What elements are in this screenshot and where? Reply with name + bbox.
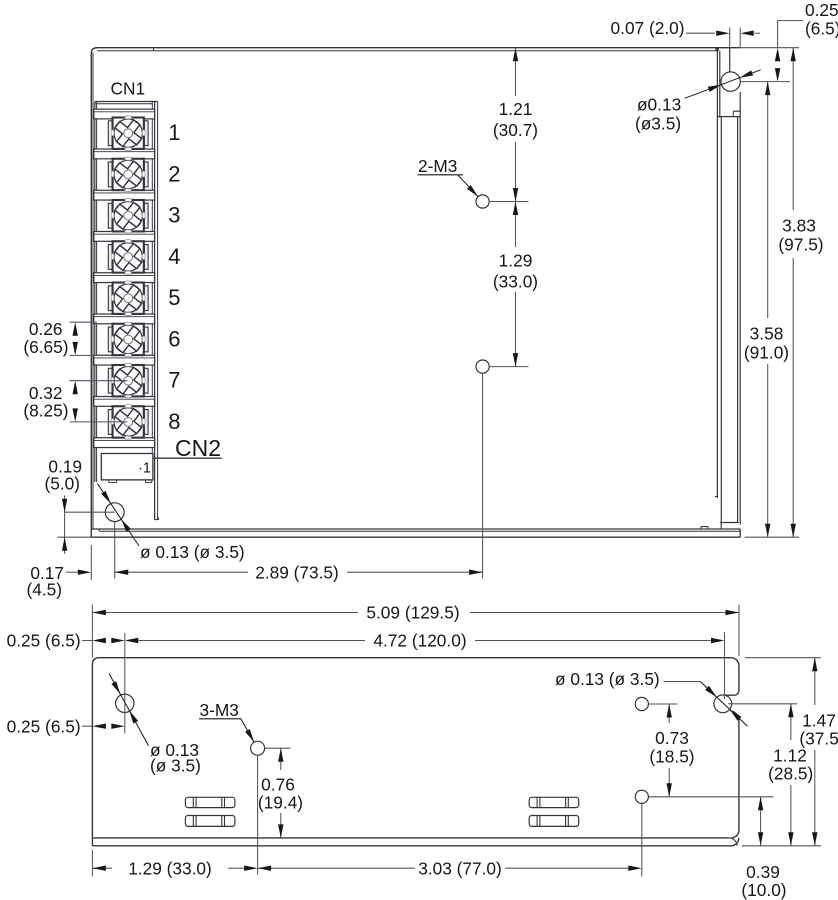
svg-text:0.07 (2.0): 0.07 (2.0) [611, 18, 685, 38]
dim 1.12 (28.5) [728, 704, 813, 846]
svg-text:1.29 (33.0): 1.29 (33.0) [128, 859, 212, 879]
hole top-left bottom view [116, 694, 134, 712]
hole TL center line [124, 633, 126, 734]
svg-text:0.26: 0.26 [29, 319, 63, 339]
terminal screw 8 [108, 403, 148, 442]
dim 1.21 (30.7) [493, 48, 538, 202]
dim 0.19 (5.0) [44, 457, 114, 555]
hole BL leader [97, 483, 139, 546]
dim 1.29 (33.0) bottom [92, 756, 257, 879]
terminal number 8 [168, 409, 180, 434]
svg-text:2.89 (73.5): 2.89 (73.5) [255, 563, 339, 583]
CN2 leader underline [151, 457, 222, 459]
dim 1.47 (37.5) [742, 658, 838, 846]
dim 0.76 (19.4) [258, 748, 303, 838]
hole TL label [150, 740, 201, 776]
svg-text:3.58: 3.58 [750, 324, 784, 344]
vent slots right group [529, 797, 579, 826]
dim 5.09 (129.5) [92, 603, 739, 658]
terminal screw 5 [108, 279, 148, 318]
svg-text:(10.0): (10.0) [741, 880, 786, 900]
dim 0.17 (4.5) [26, 545, 91, 600]
CN2 pin1 mark [138, 460, 151, 476]
CN1 label [111, 79, 146, 99]
svg-text:1.12: 1.12 [773, 746, 807, 766]
vent slots left group [185, 797, 235, 826]
svg-text:2-M3: 2-M3 [418, 156, 457, 176]
svg-text:1.47: 1.47 [802, 711, 836, 731]
hole right A [635, 697, 648, 710]
CN2 connector [101, 454, 153, 483]
dim 1.29 (33.0) top view [493, 202, 538, 367]
svg-text:1.29: 1.29 [499, 251, 533, 271]
svg-text:(8.25): (8.25) [23, 401, 68, 421]
bottom rail tab [701, 527, 708, 529]
svg-text:CN1: CN1 [111, 79, 146, 99]
svg-text:(6.5): (6.5) [805, 19, 838, 39]
svg-text:3.03 (77.0): 3.03 (77.0) [418, 859, 502, 879]
3-M3 label [199, 700, 241, 720]
case corner tab [715, 47, 718, 51]
terminal screw 4 [108, 238, 148, 277]
svg-text:0.76: 0.76 [261, 775, 295, 795]
terminal strip frame [95, 102, 159, 520]
terminal number 3 [168, 203, 180, 228]
terminal number 2 [168, 161, 180, 186]
svg-text:(30.7): (30.7) [493, 120, 538, 140]
hole BL label [140, 542, 245, 562]
svg-text:(5.0): (5.0) [44, 474, 80, 494]
terminal screw 6 [108, 320, 148, 359]
hole 2-M3 #1 [476, 195, 489, 208]
dim 3.58 (91.0) [744, 82, 799, 538]
svg-text:4: 4 [168, 244, 180, 269]
right flange edges [715, 48, 740, 529]
keyhole leader top view [685, 70, 761, 98]
svg-text:1: 1 [168, 120, 180, 145]
svg-text:(19.4): (19.4) [258, 793, 303, 813]
svg-text:0.25 (6.5): 0.25 (6.5) [7, 716, 81, 736]
svg-text:3-M3: 3-M3 [200, 700, 239, 720]
notch label [555, 669, 660, 689]
CN2 label [175, 435, 221, 461]
svg-text:ø 0.13 (ø 3.5): ø 0.13 (ø 3.5) [140, 542, 245, 562]
svg-text:4.72 (120.0): 4.72 (120.0) [373, 631, 466, 651]
hole 3-M3 [251, 741, 265, 755]
hole right B [635, 790, 648, 803]
bottom view outline [92, 658, 739, 846]
svg-text:(6.65): (6.65) [23, 337, 68, 357]
dim 4.72 (120.0) [7, 631, 725, 700]
terminal screw 1 [108, 114, 148, 153]
svg-text:0.25: 0.25 [805, 0, 838, 20]
dim 2.89 (73.5) [115, 522, 483, 583]
case outline top view [91, 48, 740, 538]
svg-text:8: 8 [168, 409, 180, 434]
hole 2-M3 #2 [476, 360, 489, 373]
svg-text:·1: ·1 [138, 460, 151, 476]
svg-text:3.83: 3.83 [782, 216, 816, 236]
svg-text:2: 2 [168, 161, 180, 186]
svg-text:1.21: 1.21 [499, 99, 533, 119]
terminal divider bars [94, 109, 155, 447]
svg-text:(97.5): (97.5) [778, 234, 823, 254]
svg-text:(28.5): (28.5) [768, 764, 813, 784]
2-M3 hole ticks [483, 202, 529, 579]
svg-text:(37.5): (37.5) [799, 729, 838, 749]
dim 0.32 (8.25) [23, 381, 127, 422]
flange keyhole slot [721, 48, 740, 117]
svg-text:5: 5 [168, 285, 180, 310]
dim 0.73 (18.5) [649, 704, 695, 797]
keyhole label top view [635, 95, 681, 134]
dim 0.25 (6.5) lower [7, 716, 125, 736]
dim 0.07 (2.0) [611, 18, 760, 48]
svg-text:(ø 3.5): (ø 3.5) [150, 756, 201, 776]
svg-text:3: 3 [168, 203, 180, 228]
svg-text:(ø3.5): (ø3.5) [635, 114, 681, 134]
terminal number 6 [168, 326, 180, 351]
terminal number 5 [168, 285, 180, 310]
case bottom rail [91, 529, 740, 537]
svg-text:(18.5): (18.5) [649, 747, 694, 767]
svg-text:0.25 (6.5): 0.25 (6.5) [7, 631, 81, 651]
svg-text:CN2: CN2 [175, 435, 221, 461]
svg-text:0.73: 0.73 [655, 728, 689, 748]
svg-text:(91.0): (91.0) [744, 342, 789, 362]
svg-text:5.09 (129.5): 5.09 (129.5) [366, 603, 459, 623]
svg-text:(33.0): (33.0) [493, 271, 538, 291]
2-M3 leader [458, 175, 479, 197]
2-M3 label [418, 156, 464, 176]
hole bottom-left top view [105, 503, 124, 522]
terminal screw 7 [108, 361, 148, 400]
hole TL leader [109, 674, 149, 746]
terminal screw 3 [108, 196, 148, 235]
dim 0.25 (6.5) top right [741, 0, 838, 82]
dim 3.83 (97.5) [741, 48, 824, 538]
notch leader [664, 682, 748, 727]
svg-text:0.39: 0.39 [746, 862, 780, 882]
dim 3.03 (77.0) [258, 804, 642, 879]
dim 0.26 (6.65) [23, 319, 97, 357]
svg-text:ø0.13: ø0.13 [637, 95, 681, 115]
terminal number 7 [168, 368, 180, 393]
3-M3 leader [241, 719, 254, 742]
terminal screw 2 [108, 155, 148, 194]
svg-text:ø 0.13 (ø 3.5): ø 0.13 (ø 3.5) [555, 669, 660, 689]
terminal number 4 [168, 244, 180, 269]
svg-text:(4.5): (4.5) [26, 580, 62, 600]
terminal number 1 [168, 120, 180, 145]
svg-text:7: 7 [168, 368, 180, 393]
dim 0.39 (10.0) [649, 797, 787, 900]
svg-text:6: 6 [168, 326, 180, 351]
